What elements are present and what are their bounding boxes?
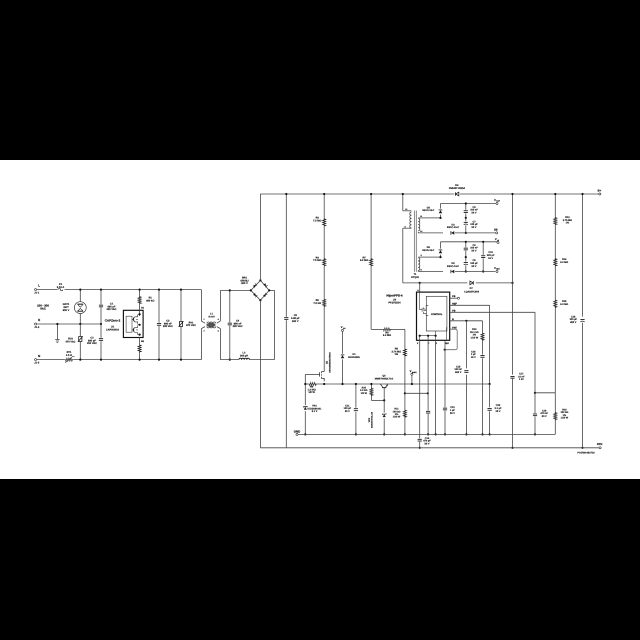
svg-text:ETQ29: ETQ29 — [411, 276, 419, 279]
IC pin F column — [427, 340, 429, 434]
svg-text:HiperPFS-4: HiperPFS-4 — [386, 294, 403, 298]
node V pin tap — [404, 392, 406, 394]
capacitor C19 — [533, 413, 538, 416]
transistor Q1 MOSFET — [322, 372, 325, 382]
svg-text:SB: SB — [494, 228, 498, 231]
diode D1 — [342, 332, 344, 354]
wire R5 to Q1 drain — [323, 307, 325, 372]
svg-text:E: E — [38, 318, 40, 322]
wire V12 rail — [441, 241, 498, 243]
resistor R4 — [322, 258, 326, 266]
IC U2 HiperPFS-4 — [419, 283, 421, 292]
wire E rail — [37, 323, 101, 325]
svg-text:ES1C-13-F: ES1C-13-F — [447, 265, 459, 268]
capacitor C2 — [100, 324, 102, 360]
svg-text:REF: REF — [452, 302, 457, 305]
resistor R9 — [403, 348, 407, 356]
diode D8 — [451, 269, 455, 273]
svg-text:BAV19WS: BAV19WS — [348, 356, 360, 359]
resistor R5 — [322, 299, 326, 307]
svg-text:50 V: 50 V — [472, 211, 477, 214]
svg-text:50 V: 50 V — [542, 415, 547, 418]
svg-text:250 VAC: 250 VAC — [107, 308, 117, 311]
terminal SB — [496, 232, 498, 234]
svg-text:300 µH: 300 µH — [240, 354, 248, 357]
svg-text:ES1D-13-F: ES1D-13-F — [422, 249, 434, 252]
varistor RV1 — [180, 290, 182, 360]
common mode choke L1 — [200, 290, 202, 321]
svg-text:12: 12 — [497, 239, 499, 242]
zener VR2 — [383, 400, 385, 412]
wire bridge plus riser — [259, 194, 261, 280]
wire R3-R4 — [323, 226, 325, 258]
capacitor C7 — [465, 218, 467, 233]
wire gate-source row — [305, 383, 309, 385]
svg-text:480 kΩ: 480 kΩ — [146, 299, 154, 302]
IC U1 CAPZero-2 — [123, 310, 143, 337]
zener VR1 — [304, 384, 306, 405]
capacitor C14 — [417, 439, 422, 442]
svg-text:1/2 W: 1/2 W — [308, 391, 315, 394]
svg-text:1 kV: 1 kV — [519, 378, 524, 381]
svg-text:2: 2 — [203, 330, 204, 333]
connector J1-3 terminal E — [35, 323, 37, 325]
all schematic ink — [34, 184, 602, 454]
net flag Vcc — [341, 329, 343, 331]
svg-text:6.2 MΩ: 6.2 MΩ — [560, 261, 568, 264]
wire choke to L2 — [219, 329, 221, 360]
resistor R13 — [554, 194, 556, 217]
svg-text:600 V: 600 V — [63, 309, 70, 312]
svg-text:305 VAC: 305 VAC — [163, 325, 173, 328]
svg-text:16 V: 16 V — [488, 257, 493, 260]
bridge rectifier BR1 — [251, 280, 269, 300]
svg-text:CONTROL: CONTROL — [431, 313, 443, 316]
svg-text:FB: FB — [452, 309, 455, 312]
svg-text:50 V: 50 V — [345, 410, 350, 413]
resistor R12 — [482, 321, 484, 333]
svg-text:3: 3 — [218, 330, 219, 333]
svg-text:305 VAC: 305 VAC — [233, 325, 243, 328]
svg-text:ES1C-13-F: ES1C-13-F — [422, 209, 434, 212]
terminal GND — [296, 433, 298, 435]
svg-text:CAP200DG: CAP200DG — [106, 329, 119, 332]
svg-text:3.15 A: 3.15 A — [57, 286, 65, 289]
wire bottom return rail — [260, 447, 598, 449]
terminal RTN — [599, 447, 601, 449]
svg-text:470 VAC: 470 VAC — [186, 324, 196, 327]
net flag Vgate — [411, 373, 413, 375]
IC U2 pin FB2 wire — [450, 311, 535, 313]
diode D3 — [451, 231, 455, 235]
svg-text:630 V: 630 V — [292, 320, 299, 323]
capacitor C4 — [229, 290, 231, 359]
resistor R7 — [370, 194, 372, 258]
svg-text:MMBT4403LT1G: MMBT4403LT1G — [375, 378, 394, 381]
wire L rail — [37, 289, 58, 291]
svg-text:470 VAC: 470 VAC — [66, 340, 76, 343]
svg-text:FB: FB — [452, 295, 455, 298]
svg-text:B+: B+ — [598, 190, 602, 193]
capacitor C17 — [512, 194, 514, 375]
svg-text:450 V: 450 V — [570, 321, 577, 324]
svg-text:10: 10 — [420, 230, 422, 233]
svg-text:VR2: VR2 — [368, 417, 371, 422]
IC pin S column — [435, 340, 437, 434]
svg-text:8 mH: 8 mH — [208, 316, 214, 319]
capacitor C9 — [465, 242, 467, 257]
svg-text:ES1C-13-C: ES1C-13-C — [447, 226, 459, 229]
capacitor C18 bulk — [582, 194, 584, 317]
svg-text:600 V: 600 V — [241, 282, 248, 285]
svg-text:GND: GND — [294, 430, 300, 434]
svg-text:9.1 V: 9.1 V — [312, 410, 318, 413]
svg-text:50 V: 50 V — [472, 265, 477, 268]
net flag Vcap — [496, 202, 498, 204]
svg-text:9: 9 — [421, 254, 422, 257]
IC pin V column — [419, 340, 421, 448]
svg-text:8: 8 — [421, 268, 422, 271]
svg-text:50 V: 50 V — [472, 249, 477, 252]
capacitor C6 — [465, 257, 467, 271]
capacitor C1 — [100, 290, 102, 324]
wire R4-R5 — [323, 266, 325, 300]
svg-text:16 V: 16 V — [471, 356, 476, 359]
capacitor C8 — [465, 204, 467, 218]
svg-text:7.5 kΩ: 7.5 kΩ — [313, 302, 321, 305]
transformer T1 core — [414, 211, 416, 272]
svg-text:RET: RET — [445, 342, 450, 345]
wire bridge minus to bottom rail — [259, 300, 261, 448]
svg-text:50 V: 50 V — [472, 226, 477, 229]
svg-text:2.5 Ω: 2.5 Ω — [66, 354, 72, 357]
resistor R3 — [323, 194, 325, 218]
capacitor C10 — [482, 242, 484, 272]
svg-text:6.2 MΩ: 6.2 MΩ — [383, 334, 391, 337]
net flag Vret — [496, 270, 498, 272]
svg-text:9: 9 — [405, 225, 406, 228]
IC U2 pin E wire — [450, 320, 483, 322]
node E junction — [79, 323, 81, 325]
transformer T1 bias winding upper — [418, 217, 425, 219]
wire main top rail — [260, 193, 454, 195]
wire SB — [455, 232, 495, 234]
wire Vcap rail — [441, 203, 496, 205]
svg-text:1/10 W: 1/10 W — [561, 417, 569, 420]
wire CAPZero column — [139, 310, 141, 316]
resistor R6 — [309, 382, 317, 386]
svg-text:VAC: VAC — [40, 307, 46, 311]
diode D7 — [469, 281, 473, 285]
earth ground — [56, 324, 58, 340]
svg-text:PI-8769-062719: PI-8769-062719 — [577, 451, 595, 454]
transistor Q2 PNP — [380, 384, 382, 387]
wire to R9 — [404, 329, 406, 348]
transformer T1 primary winding — [403, 210, 412, 212]
white schematic sheet — [0, 160, 640, 479]
diode D5 — [425, 217, 441, 219]
svg-text:50 V: 50 V — [425, 442, 430, 445]
capacitor C12 — [426, 411, 431, 414]
svg-text:7.5 MΩ: 7.5 MΩ — [313, 259, 321, 262]
svg-text:1/2 W: 1/2 W — [361, 392, 368, 395]
svg-text:1N5407-E3/54: 1N5407-E3/54 — [449, 187, 466, 190]
wire Q1 gate — [305, 373, 319, 375]
wire T1 primary to drain node — [402, 228, 404, 283]
wire FB routing — [534, 312, 536, 434]
diode D4 — [455, 192, 459, 196]
resistor R2 — [138, 344, 142, 352]
capacitor C16 — [480, 355, 485, 358]
resistor R8 — [371, 328, 383, 330]
gas discharge tube GDT1 — [79, 290, 81, 302]
capacitor C13 — [443, 407, 448, 410]
REF column C20 — [489, 305, 491, 384]
svg-text:PFS7525H: PFS7525H — [388, 301, 400, 304]
svg-text:50 V: 50 V — [450, 412, 455, 415]
svg-text:RTN: RTN — [597, 443, 602, 446]
capacitor C5 — [285, 194, 287, 448]
svg-text:L: L — [38, 284, 40, 288]
svg-text:630 V: 630 V — [455, 371, 462, 374]
capacitor C3 — [158, 290, 160, 360]
wire drain node — [419, 282, 421, 284]
svg-text:BZX384-B13,115: BZX384-B13,115 — [371, 411, 374, 428]
fuse F1 — [58, 288, 63, 290]
IC U2 pin REF wire — [450, 304, 490, 306]
diode D6 — [425, 256, 441, 258]
svg-text:7.5 MΩ: 7.5 MΩ — [313, 219, 321, 222]
svg-text:25 V: 25 V — [496, 410, 501, 413]
svg-text:6.2 MΩ: 6.2 MΩ — [560, 303, 568, 306]
connector J1-5 terminal N — [35, 359, 37, 361]
connector J1-1 terminal L — [35, 289, 37, 291]
wire choke to bridge — [219, 290, 221, 321]
wire GND rail — [298, 433, 555, 435]
capacitor C15 — [465, 321, 467, 369]
svg-text:J1-5: J1-5 — [34, 362, 40, 365]
svg-text:1/10 W: 1/10 W — [393, 416, 401, 419]
svg-text:6.2 MΩ: 6.2 MΩ — [360, 259, 368, 262]
wire bridge AC2 riser — [274, 290, 276, 359]
wire R9 to R11 — [404, 356, 406, 410]
svg-text:CAPZero-2: CAPZero-2 — [105, 319, 121, 323]
IC U2 internal source bus — [420, 327, 447, 340]
svg-text:1: 1 — [203, 318, 204, 321]
varistor RV2 — [79, 324, 81, 360]
transformer T1 primary feed — [402, 194, 404, 211]
IC U2 pin FB stub — [450, 297, 458, 299]
inductor L2 — [220, 359, 239, 361]
resistor R11 — [403, 409, 407, 417]
svg-text:SSN1M45BXXTMA6: SSN1M45BXXTMA6 — [328, 352, 331, 373]
thermistor RT1 — [65, 358, 73, 362]
resistor R15 — [553, 300, 557, 308]
IC pin RET column — [444, 340, 446, 434]
wire N rail — [37, 359, 65, 361]
capacitor C11 — [355, 384, 357, 434]
terminal B+ — [599, 193, 601, 195]
svg-text:11: 11 — [420, 215, 422, 218]
net flag V12 — [497, 242, 499, 244]
node Q1 source — [323, 383, 325, 385]
svg-text:250 VAC: 250 VAC — [87, 342, 97, 345]
wire Vret rail — [455, 271, 495, 273]
resistor R16 — [554, 393, 556, 413]
svg-text:LQA03TC600: LQA03TC600 — [464, 291, 480, 294]
svg-text:N: N — [38, 354, 40, 358]
resistor R14 — [553, 258, 557, 266]
resistor R1 — [139, 290, 141, 297]
svg-text:J1-3: J1-3 — [34, 326, 40, 329]
resistor R10 — [370, 384, 372, 388]
transformer T1 bias winding lower — [418, 256, 425, 258]
svg-text:1/10 W: 1/10 W — [471, 336, 479, 339]
svg-text:J1-1: J1-1 — [34, 291, 40, 294]
